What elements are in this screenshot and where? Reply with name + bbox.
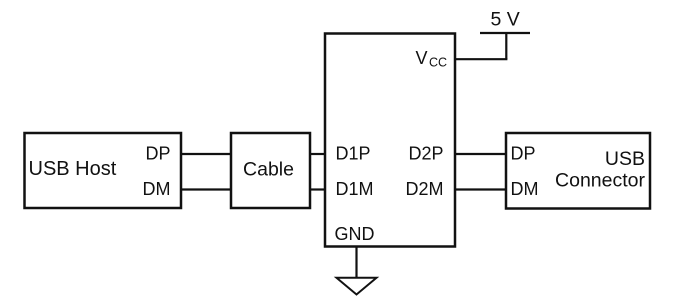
wire D1P: Cable to device xyxy=(310,153,325,155)
svg-text:DP: DP xyxy=(145,144,170,164)
wire DM: USB Host to Cable xyxy=(181,188,231,190)
svg-text:DM: DM xyxy=(143,179,171,199)
block Cable xyxy=(231,133,310,208)
svg-text:V: V xyxy=(416,48,428,68)
pin label Vcc xyxy=(416,48,448,70)
wire Vcc vertical drop from 5V bar xyxy=(505,33,507,59)
supply 5V bar xyxy=(480,32,530,34)
svg-text:Connector: Connector xyxy=(555,170,645,192)
device U1 (center block) xyxy=(325,34,455,247)
svg-text:USB: USB xyxy=(605,148,645,170)
wire GND stem xyxy=(355,247,357,278)
svg-text:DM: DM xyxy=(511,179,539,199)
svg-text:D1P: D1P xyxy=(336,144,371,164)
svg-text:CC: CC xyxy=(429,56,447,70)
svg-text:GND: GND xyxy=(335,224,375,244)
wire D2P: device to USB Connector xyxy=(455,153,506,155)
wire D2M: device to USB Connector xyxy=(455,188,506,190)
block USB Host xyxy=(25,133,182,208)
ground symbol xyxy=(337,278,377,295)
svg-text:5 V: 5 V xyxy=(491,9,520,31)
wire DP: USB Host to Cable xyxy=(181,153,231,155)
wire D1M: Cable to device xyxy=(310,188,325,190)
svg-text:DP: DP xyxy=(511,144,536,164)
svg-text:D1M: D1M xyxy=(336,179,374,199)
svg-text:D2M: D2M xyxy=(405,179,443,199)
wire Vcc: device to 5V xyxy=(455,58,507,60)
svg-text:Cable: Cable xyxy=(243,159,294,181)
block USB Connector xyxy=(506,133,650,209)
svg-text:USB Host: USB Host xyxy=(29,158,117,180)
svg-text:D2P: D2P xyxy=(408,144,443,164)
